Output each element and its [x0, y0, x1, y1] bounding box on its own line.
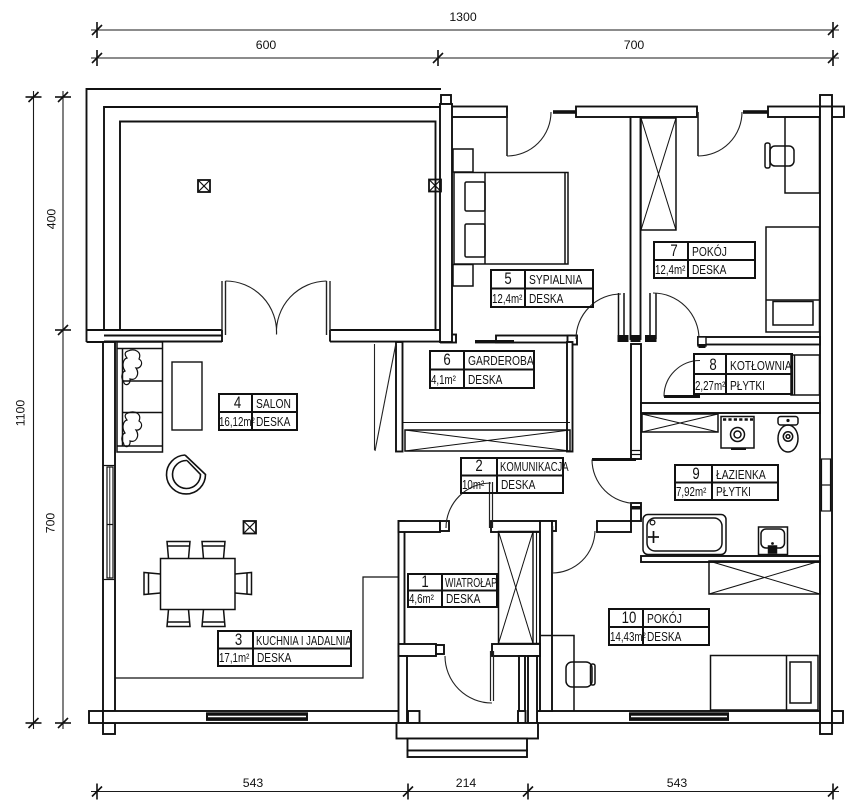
svg-text:214: 214 [456, 776, 477, 790]
svg-text:2,27m²: 2,27m² [695, 380, 725, 394]
svg-text:6: 6 [443, 351, 450, 370]
svg-text:543: 543 [243, 776, 264, 790]
svg-text:700: 700 [44, 513, 58, 534]
svg-text:7,92m²: 7,92m² [676, 486, 706, 500]
svg-text:DESKA: DESKA [257, 651, 292, 665]
svg-text:7: 7 [670, 242, 677, 261]
svg-text:700: 700 [624, 38, 645, 52]
svg-text:DESKA: DESKA [647, 630, 682, 644]
svg-text:3: 3 [235, 631, 242, 650]
svg-text:POKÓJ: POKÓJ [647, 611, 682, 627]
svg-text:5: 5 [504, 270, 511, 289]
svg-text:4,6m²: 4,6m² [409, 593, 434, 607]
svg-text:1: 1 [421, 573, 428, 592]
svg-text:4,1m²: 4,1m² [431, 374, 456, 388]
svg-text:KUCHNIA I JADALNIA: KUCHNIA I JADALNIA [256, 635, 352, 649]
svg-text:2: 2 [475, 457, 482, 476]
svg-text:543: 543 [667, 776, 688, 790]
svg-text:12,4m²: 12,4m² [492, 293, 522, 307]
svg-text:DESKA: DESKA [256, 415, 291, 429]
svg-text:POKÓJ: POKÓJ [692, 244, 727, 260]
svg-text:9: 9 [692, 465, 699, 484]
svg-text:SYPIALNIA: SYPIALNIA [529, 272, 582, 288]
svg-text:DESKA: DESKA [468, 373, 503, 387]
svg-text:8: 8 [709, 356, 716, 375]
svg-text:DESKA: DESKA [529, 292, 564, 306]
svg-text:KOMUNIKACJA: KOMUNIKACJA [500, 461, 569, 475]
svg-text:10m²: 10m² [462, 479, 484, 493]
svg-text:PŁYTKI: PŁYTKI [716, 485, 751, 499]
svg-text:WIATROŁAP: WIATROŁAP [445, 576, 497, 590]
svg-text:GARDEROBA: GARDEROBA [468, 353, 534, 369]
svg-text:4: 4 [234, 394, 241, 413]
svg-text:KOTŁOWNIA: KOTŁOWNIA [730, 358, 792, 374]
svg-text:ŁAZIENKA: ŁAZIENKA [716, 467, 766, 483]
svg-text:DESKA: DESKA [446, 592, 481, 606]
svg-text:12,4m²: 12,4m² [655, 264, 685, 278]
svg-text:DESKA: DESKA [692, 263, 727, 277]
svg-text:1100: 1100 [14, 400, 28, 427]
svg-text:14,43m²: 14,43m² [610, 631, 646, 645]
svg-text:17,1m²: 17,1m² [219, 652, 249, 666]
svg-text:10: 10 [622, 609, 637, 628]
svg-text:PŁYTKI: PŁYTKI [730, 379, 765, 393]
svg-text:DESKA: DESKA [501, 478, 536, 492]
svg-text:16,12m²: 16,12m² [219, 416, 255, 430]
svg-text:1300: 1300 [449, 10, 477, 24]
svg-text:400: 400 [45, 209, 59, 230]
svg-text:SALON: SALON [256, 396, 291, 412]
svg-text:600: 600 [256, 38, 277, 52]
